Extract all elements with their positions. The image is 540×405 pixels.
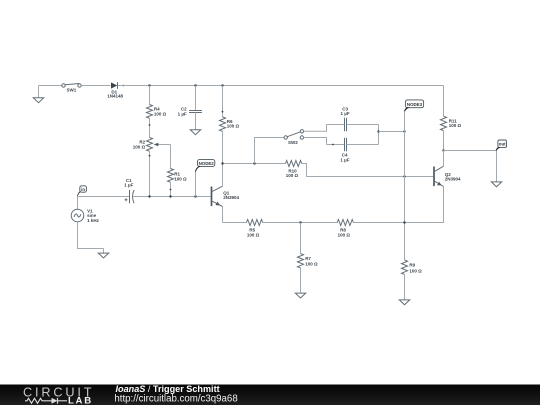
svg-text:1 kHz: 1 kHz xyxy=(87,218,100,223)
resistor R8 xyxy=(337,220,353,238)
svg-text:1 µF: 1 µF xyxy=(178,112,187,117)
wire xyxy=(300,268,302,293)
svg-text:2N3904: 2N3904 xyxy=(223,195,239,200)
node junction out xyxy=(442,149,444,151)
flag out xyxy=(496,140,507,151)
capacitor C2 xyxy=(178,107,202,117)
svg-text:R7: R7 xyxy=(305,256,311,261)
wire xyxy=(170,182,172,196)
wire (mid row) xyxy=(223,163,286,165)
wire xyxy=(263,222,338,224)
ground (R9) xyxy=(399,300,409,305)
wire (C4 branch) xyxy=(327,144,345,146)
diode D1 1N4148 xyxy=(107,82,124,99)
svg-text:100 Ω: 100 Ω xyxy=(247,233,260,238)
wire (SW2 branch) xyxy=(255,138,284,164)
node junction mid row / SW2 branch xyxy=(253,162,255,164)
wire xyxy=(404,274,406,300)
node junction top rail / C2 column xyxy=(194,84,196,86)
wire (C3 branch) xyxy=(327,124,345,126)
svg-text:100 Ω: 100 Ω xyxy=(449,123,462,128)
wire xyxy=(443,131,445,151)
node junction input row / R1 xyxy=(169,195,171,197)
node junction input row / NODE2 xyxy=(194,195,196,197)
switch SW1 xyxy=(62,84,81,93)
terminal dot R1 pin 2 xyxy=(170,189,172,191)
svg-text:100 Ω: 100 Ω xyxy=(154,111,167,116)
svg-text:SW2: SW2 xyxy=(288,140,298,145)
wire (out to ground) xyxy=(496,151,498,182)
CircuitLab logo xyxy=(23,386,94,405)
svg-text:1 µF: 1 µF xyxy=(124,183,133,188)
flag NODE3 xyxy=(404,100,424,112)
wire (out row) xyxy=(444,150,497,152)
node junction NODE3 column / loop xyxy=(403,130,405,132)
svg-text:100 Ω: 100 Ω xyxy=(286,173,299,178)
resistor R5 xyxy=(247,220,263,238)
resistor R6 xyxy=(220,117,240,131)
wire (emitter row) xyxy=(223,222,247,224)
node junction top rail / R6 column xyxy=(221,84,223,86)
resistor R1 xyxy=(168,169,188,183)
transistor Q1 2N3904 xyxy=(212,164,240,223)
capacitor C4 xyxy=(340,138,349,163)
svg-text:R9: R9 xyxy=(409,263,415,268)
svg-text:100 Ω: 100 Ω xyxy=(227,124,240,129)
svg-text:100 Ω: 100 Ω xyxy=(338,233,351,238)
wire (input row) xyxy=(78,196,130,198)
wire xyxy=(347,124,379,126)
node junction emitter row / R7 xyxy=(299,221,301,223)
svg-text:1 µF: 1 µF xyxy=(340,157,349,162)
wire xyxy=(149,86,151,105)
resistor R7 xyxy=(298,254,318,268)
ground (R7) xyxy=(295,293,305,298)
terminal dot R4 pin 2 xyxy=(149,124,151,126)
svg-text:LAB: LAB xyxy=(68,396,93,405)
resistor R4 xyxy=(147,105,167,119)
terminal dot R6 pin 1 xyxy=(222,111,224,113)
resistor R9 xyxy=(402,260,423,274)
wire (loop right side) xyxy=(378,125,380,145)
svg-text:100 Ω: 100 Ω xyxy=(174,177,187,182)
wire (R7 branch) xyxy=(300,223,302,254)
wire (NODE3 column) xyxy=(404,111,406,260)
wire (R6 column) xyxy=(222,86,224,117)
wire xyxy=(195,113,197,130)
wire (SW2 top throw) xyxy=(304,125,327,132)
wire xyxy=(347,144,379,146)
capacitor C1 xyxy=(124,178,134,203)
svg-text:2N3904: 2N3904 xyxy=(445,177,461,182)
wire (SW2 bottom throw) xyxy=(304,138,327,145)
resistor R11 xyxy=(441,116,462,130)
svg-text:NODE3: NODE3 xyxy=(407,102,423,107)
node junction emitter row / NODE3 column xyxy=(403,221,405,223)
svg-text:SW1: SW1 xyxy=(67,88,77,93)
wire xyxy=(222,131,224,163)
wire (top rail) xyxy=(118,85,444,87)
potentiometer R2 xyxy=(133,138,171,152)
ground (C2) xyxy=(190,130,200,135)
node junction base row / NODE3 column xyxy=(403,175,405,177)
svg-text:1 µF: 1 µF xyxy=(341,111,350,116)
transistor Q2 2N3904 xyxy=(405,151,462,223)
footer bar xyxy=(0,385,540,405)
svg-text:100 Ω: 100 Ω xyxy=(305,262,318,267)
capacitor C3 xyxy=(341,106,350,131)
terminal dot R2 pin 2 xyxy=(149,155,151,157)
wire (C2 column) xyxy=(195,86,197,111)
svg-text:out: out xyxy=(499,142,506,147)
flag NODE2 xyxy=(195,160,215,197)
wire xyxy=(81,85,110,87)
wire xyxy=(133,196,211,198)
wire xyxy=(379,131,405,133)
svg-text:100 Ω: 100 Ω xyxy=(409,269,422,274)
node junction mid row / Q1 collector xyxy=(221,162,223,164)
svg-text:100 Ω: 100 Ω xyxy=(133,144,146,149)
voltage source V1 xyxy=(71,197,103,249)
wire (top rail corner to R11) xyxy=(443,86,445,117)
ground (out) xyxy=(491,182,501,187)
wire xyxy=(353,222,404,224)
svg-text:1N4148: 1N4148 xyxy=(107,94,123,99)
switch SW2 xyxy=(284,130,304,145)
ground (top-left, SW1) xyxy=(33,86,43,103)
node junction input row / R4-R2 column xyxy=(148,195,150,197)
svg-text:NODE2: NODE2 xyxy=(199,161,215,166)
wire xyxy=(149,151,151,196)
wire xyxy=(149,118,151,137)
ground (V1) xyxy=(98,249,108,259)
flag in xyxy=(77,186,86,197)
svg-text:http://circuitlab.com/c3q9a68: http://circuitlab.com/c3q9a68 xyxy=(114,393,237,404)
wire xyxy=(39,85,62,87)
node junction loop output xyxy=(377,130,379,132)
wire (R10 to Q2 base) xyxy=(302,164,434,177)
svg-text:in: in xyxy=(81,187,85,192)
wire (wiper to R1) xyxy=(170,145,172,169)
node junction top rail / R4 column xyxy=(148,84,150,86)
terminal dot C4 pin 1 xyxy=(332,144,334,146)
svg-text:IoanaS / Trigger Schmitt: IoanaS / Trigger Schmitt xyxy=(116,384,220,394)
resistor R10 xyxy=(286,161,302,178)
